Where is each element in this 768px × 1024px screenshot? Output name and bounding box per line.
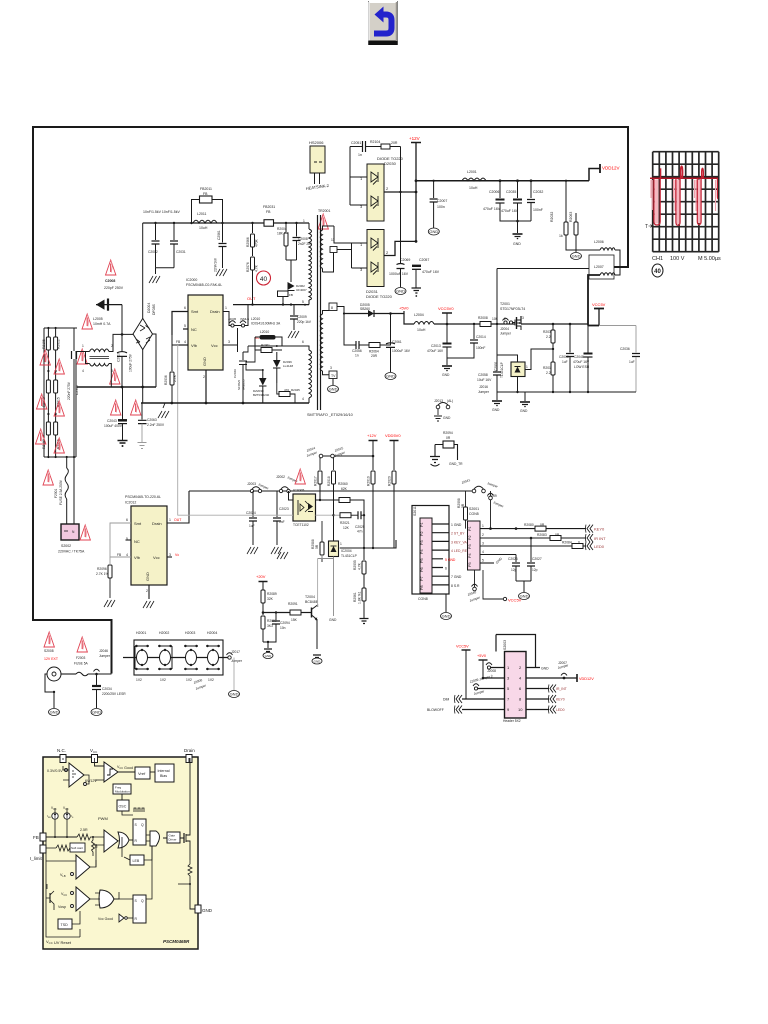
svg-text:6: 6 [184, 306, 186, 310]
svg-text:470uF 16V: 470uF 16V [573, 360, 590, 364]
R2096 [109, 557, 111, 564]
TL431 IC2001 [497, 355, 518, 362]
svg-text:220nF 275V: 220nF 275V [67, 381, 71, 400]
svg-text:VDD5V0: VDD5V0 [385, 433, 401, 438]
svg-text:(AL): (AL) [447, 399, 453, 403]
svg-text:J2004: J2004 [500, 327, 509, 331]
svg-text:Vcc: Vcc [153, 555, 160, 560]
caps C2026 C2027 [515, 527, 518, 530]
svg-text:GND: GND [314, 660, 322, 664]
svg-text:FB2011: FB2011 [200, 187, 212, 191]
svg-text:C2061: C2061 [217, 230, 221, 240]
svg-text:OUT: OUT [174, 518, 182, 522]
svg-text:P2: P2 [468, 535, 472, 540]
svg-text:H2004: H2004 [207, 631, 217, 635]
svg-text:S2003: S2003 [503, 640, 507, 650]
bottom primary bus [141, 402, 309, 404]
svg-text:20R: 20R [391, 141, 398, 145]
svg-text:H2002: H2002 [159, 631, 169, 635]
svg-text:470uF 16V: 470uF 16V [422, 270, 440, 274]
svg-text:P3: P3 [468, 544, 472, 549]
svg-text:SF0S/6: SF0S/6 [237, 380, 241, 390]
svg-text:1: 1 [82, 344, 84, 348]
svg-text:C2006: C2006 [489, 190, 499, 194]
svg-text:1: 1 [169, 518, 171, 522]
svg-text:P2: P2 [420, 531, 424, 536]
svg-text:IC0S41/100MHz 3A: IC0S41/100MHz 3A [251, 322, 281, 326]
C2023 [276, 491, 278, 517]
svg-text:PSCM0465-TO-220-6L: PSCM0465-TO-220-6L [125, 495, 161, 499]
svg-text:Modulation: Modulation [115, 790, 130, 794]
svg-text:R2019: R2019 [367, 476, 371, 486]
zener BZT03D240 [259, 378, 267, 386]
svg-text:C2058: C2058 [478, 373, 488, 377]
C2061b 1000uF [390, 342, 392, 345]
svg-text:470uF 16V: 470uF 16V [483, 207, 501, 211]
svg-text:LL4148: LL4148 [283, 364, 293, 368]
svg-text:IC2012: IC2012 [125, 501, 136, 505]
svg-text:STD17NF03LT4: STD17NF03LT4 [500, 307, 525, 311]
svg-text:C2048: C2048 [574, 355, 584, 359]
svg-text:J2041: J2041 [461, 478, 471, 485]
svg-text:C2007: C2007 [437, 199, 447, 203]
svg-text:0.3V/0.5V: 0.3V/0.5V [47, 769, 63, 773]
svg-text:FB: FB [266, 210, 271, 214]
svg-text:J2008: J2008 [487, 669, 496, 673]
svg-text:T: T [645, 224, 648, 230]
svg-text:22nF/1kV: 22nF/1kV [214, 257, 218, 272]
svg-text:2.7K: 2.7K [173, 374, 177, 382]
svg-text:Vosp: Vosp [58, 905, 66, 909]
C2009 snubber to gnd [293, 305, 295, 315]
R2090 C2094 [261, 616, 265, 629]
svg-text:220VAC / TK75A: 220VAC / TK75A [58, 550, 85, 554]
svg-text:+12V: +12V [367, 433, 377, 438]
svg-text:R: R [95, 845, 98, 849]
svg-text:J2003: J2003 [247, 482, 256, 486]
svg-text:FB: FB [203, 192, 208, 196]
svg-text:VDD12V: VDD12V [579, 677, 594, 681]
svg-text:Internal: Internal [158, 769, 170, 773]
C2058 / J2016 [496, 324, 498, 371]
svg-text:470uF 16V: 470uF 16V [501, 209, 519, 213]
svg-text:TV: TV [331, 374, 336, 378]
svg-text:P6: P6 [420, 567, 424, 572]
svg-text:0R: 0R [446, 436, 451, 440]
C2061 22nF [222, 223, 224, 243]
svg-text:CON8: CON8 [418, 597, 428, 601]
svg-text:BLOWOFF: BLOWOFF [427, 708, 444, 712]
fuse F2001 [66, 457, 68, 468]
svg-text:Jumper: Jumper [99, 654, 111, 658]
svg-text:LED0: LED0 [556, 708, 565, 712]
svg-text:4.7K: 4.7K [358, 562, 362, 570]
svg-text:Drain: Drain [210, 309, 220, 314]
svg-text:M 5.00µs: M 5.00µs [698, 256, 721, 262]
svg-text:3 KEY_VAL: 3 KEY_VAL [451, 540, 469, 544]
resistor R2104 [381, 144, 390, 149]
svg-text:J2009 Jumper 2: J2009 Jumper 2 [469, 674, 493, 684]
svg-text:2: 2 [386, 186, 389, 191]
capacitor C2051 [363, 141, 366, 152]
svg-text:IR_INT: IR_INT [556, 687, 567, 691]
svg-text:C2043: C2043 [107, 419, 117, 423]
svg-text:C2023: C2023 [279, 507, 289, 511]
svg-text:C2016: C2016 [559, 355, 569, 359]
drain wire [233, 304, 309, 306]
svg-text:2.5R: 2.5R [80, 828, 88, 832]
svg-text:Jumper: Jumper [500, 332, 512, 336]
svg-text:C2049: C2049 [233, 369, 237, 378]
svg-text:1000uF 16V: 1000uF 16V [389, 272, 409, 276]
svg-text:R2008: R2008 [478, 316, 488, 320]
3 small pulse shapes above latch [134, 808, 144, 812]
svg-text:100uF 400V: 100uF 400V [104, 424, 123, 428]
svg-text:TCET1102: TCET1102 [293, 523, 309, 527]
svg-text:C2069: C2069 [400, 258, 410, 262]
svg-text:3: 3 [522, 316, 524, 320]
svg-text:R2061: R2061 [353, 592, 357, 602]
svg-text:VCC5V0: VCC5V0 [438, 306, 454, 311]
svg-text:R2017: R2017 [314, 476, 318, 486]
connector S2011 CON8 [412, 506, 449, 595]
junction dots on rail [499, 179, 502, 182]
fuse F2003 [77, 637, 87, 652]
svg-text:1.8K %1: 1.8K %1 [358, 591, 362, 604]
svg-text:CH1: CH1 [652, 256, 663, 262]
svg-text:Drain: Drain [184, 748, 195, 753]
svg-text:2200/25V LESR: 2200/25V LESR [102, 692, 126, 696]
svg-text:1V2: 1V2 [208, 678, 214, 682]
svg-text:J2045: J2045 [228, 317, 237, 321]
svg-text:8: 8 [331, 306, 333, 310]
svg-text:Jumper: Jumper [469, 595, 482, 603]
J2017 jumper to gnd [228, 656, 231, 659]
C2024 [252, 491, 254, 517]
svg-text:P8: P8 [420, 585, 424, 590]
red circled 40 [257, 271, 271, 285]
svg-text:F2001: F2001 [54, 488, 58, 498]
svg-text:TSD: TSD [61, 923, 69, 927]
C2017 cap [121, 333, 124, 336]
svg-text:5: 5 [184, 324, 186, 328]
svg-text:8 S.R: 8 S.R [451, 584, 460, 588]
svg-text:Vref: Vref [138, 771, 146, 776]
svg-text:IC2004: IC2004 [341, 549, 352, 553]
svg-text:HS2006: HS2006 [309, 140, 324, 145]
pin stubs [432, 524, 449, 585]
svg-text:R2076: R2076 [246, 262, 250, 272]
wire right border down to L2007 [614, 126, 628, 267]
svg-text:N.C.: N.C. [57, 748, 66, 753]
secondary winding lower (7,3) [320, 314, 322, 371]
svg-text:IR INT: IR INT [594, 536, 606, 541]
svg-text:Drain: Drain [152, 521, 162, 526]
svg-text:10uH: 10uH [199, 226, 208, 230]
svg-text:R2084: R2084 [562, 541, 572, 545]
svg-text:R2064: R2064 [369, 350, 379, 354]
svg-text:KEY0: KEY0 [556, 698, 565, 702]
scope grid [653, 152, 719, 252]
svg-text:1: 1 [340, 542, 342, 546]
chevron terminals + labels [586, 525, 594, 533]
PWM comparator [104, 830, 118, 852]
svg-text:L2011: L2011 [197, 212, 207, 216]
svg-text:Smt: Smt [134, 521, 142, 526]
scope waveform trace [650, 166, 718, 225]
svg-text:NC: NC [134, 539, 140, 544]
svg-text:10: 10 [518, 707, 523, 712]
svg-text:L2004: L2004 [414, 313, 424, 317]
svg-text:C2008: C2008 [105, 279, 115, 283]
diode UF4007 w/ FB [288, 282, 295, 290]
svg-text:2.7K 1%: 2.7K 1% [96, 572, 109, 576]
svg-text:C2034: C2034 [102, 687, 112, 691]
svg-text:40: 40 [260, 276, 268, 283]
svg-text:L2006: L2006 [594, 240, 604, 244]
svg-text:VCC Good: VCC Good [117, 765, 133, 770]
svg-text:VCC5V: VCC5V [508, 598, 522, 603]
svg-text:C2014: C2014 [476, 335, 486, 339]
svg-text:R2004: R2004 [277, 227, 287, 231]
svg-text:Vc: Vc [175, 553, 179, 557]
svg-text:C2002: C2002 [148, 250, 158, 254]
chevrons right [549, 685, 557, 693]
middle comparator [76, 855, 90, 879]
left stubs [462, 668, 505, 710]
svg-text:P5: P5 [420, 558, 424, 563]
svg-text:10uH: 10uH [417, 328, 426, 332]
svg-text:S2011: S2011 [413, 506, 417, 516]
svg-text:1n: 1n [355, 354, 359, 358]
svg-text:GND_TR: GND_TR [449, 462, 463, 466]
svg-text:4: 4 [126, 553, 128, 557]
svg-text:IC2000: IC2000 [186, 278, 197, 282]
svg-text:5 GND: 5 GND [445, 558, 456, 562]
svg-text:GND: GND [202, 908, 213, 913]
svg-text:2: 2 [203, 375, 205, 379]
svg-text:C2035: C2035 [506, 190, 516, 194]
MOSFET right [183, 833, 185, 843]
svg-text:C2032: C2032 [533, 190, 543, 194]
svg-text:1nF: 1nF [279, 520, 285, 524]
four tube symbols [135, 646, 220, 669]
svg-text:220pF 250V: 220pF 250V [104, 286, 124, 290]
svg-text:Header 5X2: Header 5X2 [503, 719, 521, 723]
svg-text:P7: P7 [420, 576, 424, 581]
svg-text:VCC5V: VCC5V [456, 645, 469, 649]
svg-text:FB: FB [117, 553, 122, 557]
main top DC wire [143, 222, 309, 224]
svg-text:9R2035: 9R2035 [242, 379, 246, 390]
svg-text:FB2031: FB2031 [263, 205, 275, 209]
svg-text:1: 1 [482, 524, 484, 528]
svg-text:P1: P1 [420, 522, 424, 527]
secondary 5V diode [344, 313, 368, 315]
svg-text:GND: GND [265, 654, 273, 658]
svg-text:12p: 12p [532, 568, 538, 572]
AC inlet S2002 [61, 524, 79, 540]
svg-text:R2045: R2045 [291, 388, 300, 392]
svg-text:CON5: CON5 [469, 512, 479, 516]
svg-text:R2104: R2104 [370, 140, 380, 144]
svg-text:FB: FB [33, 835, 39, 840]
svg-text:GND: GND [541, 667, 549, 671]
svg-text:VCC: VCC [90, 748, 98, 754]
svg-text:GND: GND [513, 242, 521, 246]
svg-text:GND: GND [443, 416, 451, 420]
svg-text:R2091: R2091 [288, 602, 298, 606]
right pin GND [195, 905, 201, 913]
primary winding [308, 223, 310, 229]
svg-text:20R: 20R [371, 354, 378, 358]
svg-text:L2001: L2001 [467, 170, 477, 174]
svg-text:5: 5 [482, 559, 484, 563]
minus bus y387 [77, 386, 156, 388]
svg-text:R2005: R2005 [353, 560, 357, 570]
svg-text:R2089: R2089 [267, 592, 277, 596]
svg-text:I_limit: I_limit [30, 856, 43, 861]
C2034 [96, 674, 98, 685]
secondary winding upper (11,12) [320, 230, 322, 268]
svg-text:1: 1 [526, 365, 528, 369]
svg-text:6: 6 [445, 567, 447, 571]
svg-text:GND: GND [520, 409, 528, 413]
svg-text:SMTTRAFO _ET029/16/10: SMTTRAFO _ET029/16/10 [307, 413, 353, 417]
svg-text:Jumper: Jumper [231, 659, 243, 663]
svg-text:P4: P4 [420, 549, 424, 554]
svg-text:1uF: 1uF [562, 360, 568, 364]
svg-text:GND: GND [145, 572, 150, 581]
svg-text:3: 3 [482, 542, 484, 546]
R2031 2.2k + R2013 2.2K [552, 324, 554, 330]
svg-text:Vcc Good: Vcc Good [98, 917, 113, 921]
svg-text:C2024: C2024 [246, 511, 256, 515]
bottom rail [497, 391, 636, 393]
svg-text:R2018: R2018 [327, 476, 331, 486]
12V EXT jack [44, 632, 54, 647]
svg-text:TR2001: TR2001 [318, 209, 331, 213]
svg-text:2: 2 [386, 250, 389, 255]
diode block D2031 [367, 230, 384, 287]
svg-text:40: 40 [654, 269, 661, 275]
C2013 [446, 324, 448, 343]
svg-text:470: 470 [284, 388, 289, 392]
main 12V wire to the right [416, 180, 589, 182]
FB gray line [177, 345, 179, 516]
svg-text:Jumper: Jumper [493, 500, 505, 509]
svg-text:P1: P1 [468, 526, 472, 531]
blue arrow glyph [374, 15, 392, 34]
svg-text:DIM: DIM [443, 698, 449, 702]
svg-text:KEY0: KEY0 [594, 527, 605, 532]
svg-text:Q: Q [141, 823, 144, 827]
svg-text:S2008: S2008 [44, 649, 54, 653]
R2066 R2076 chain [252, 223, 254, 233]
svg-text:DF08S: DF08S [152, 303, 156, 315]
svg-text:R2083: R2083 [537, 533, 547, 537]
svg-text:C2057: C2057 [419, 258, 429, 262]
svg-text:1V2: 1V2 [160, 678, 166, 682]
latch box 2 [133, 895, 146, 923]
svg-text:1V2: 1V2 [186, 678, 192, 682]
svg-text:F2003: F2003 [76, 656, 86, 660]
svg-text:R2105: R2105 [42, 339, 46, 349]
svg-text:OSC: OSC [119, 805, 127, 809]
svg-text:C2094: C2094 [280, 621, 290, 625]
warning triangles EMI [40, 350, 50, 365]
wire top border [33, 126, 628, 128]
soft start [70, 843, 85, 852]
IC pins [172, 312, 188, 336]
svg-text:1n: 1n [358, 153, 362, 157]
Internal Bias box [155, 764, 174, 782]
VDD12V right [563, 677, 566, 680]
svg-text:GND: GND [492, 408, 500, 412]
svg-text:C2051: C2051 [351, 141, 361, 145]
svg-text:FB: FB [289, 293, 293, 297]
svg-text:3: 3 [228, 340, 230, 344]
svg-text:+5V0: +5V0 [399, 306, 409, 311]
circled 40 under scope [652, 264, 663, 277]
snubber drop x=401 [400, 147, 402, 242]
C2016 C2048 C2036 [569, 324, 571, 353]
svg-text:Vfb: Vfb [191, 343, 198, 348]
svg-text:C2031: C2031 [176, 250, 186, 254]
svg-text:470uF 16V: 470uF 16V [427, 349, 444, 353]
Vref box [135, 767, 150, 779]
svg-text:S2002: S2002 [61, 544, 71, 548]
svg-text:FUSE 2.5A 250V: FUSE 2.5A 250V [59, 479, 63, 505]
svg-text:L2007: L2007 [594, 265, 604, 269]
right stubs [526, 668, 577, 710]
FB bus to right [189, 490, 474, 492]
surge arrester / C2008 arrow device [106, 260, 116, 275]
BJT left bottom [49, 893, 51, 903]
R2036 on FB [172, 344, 179, 346]
VDD12V terminal [589, 169, 600, 181]
svg-text:BC848B: BC848B [305, 600, 319, 604]
svg-text:2 ST_BY: 2 ST_BY [451, 532, 465, 536]
svg-text:R2096: R2096 [97, 567, 107, 571]
svg-text:2.2nF 250V: 2.2nF 250V [147, 423, 165, 427]
svg-text:3: 3 [169, 553, 171, 557]
svg-text:4: 4 [302, 397, 304, 401]
diode symbols inside D2030 [371, 172, 378, 185]
svg-text:FUSE 5A: FUSE 5A [74, 662, 89, 666]
svg-text:7 GND: 7 GND [451, 575, 462, 579]
svg-text:100nF: 100nF [476, 346, 485, 350]
latch box 1 [133, 819, 146, 845]
svg-text:Soft start: Soft start [71, 846, 83, 850]
svg-text:C2013: C2013 [431, 344, 441, 348]
svg-text:R2021: R2021 [340, 521, 350, 525]
svg-text:FSCM0465-C0-FAK-6L: FSCM0465-C0-FAK-6L [186, 283, 222, 287]
svg-text:Driver: Driver [169, 838, 177, 842]
R2045 [279, 392, 290, 397]
pins [110, 523, 131, 557]
svg-text:P3: P3 [420, 540, 424, 545]
svg-text:220p 1kV: 220p 1kV [297, 320, 312, 324]
svg-text:2: 2 [482, 533, 484, 537]
svg-text:L2005: L2005 [93, 317, 103, 321]
svg-text:T2004: T2004 [305, 595, 315, 599]
svg-text:Jumper: Jumper [195, 683, 208, 691]
svg-text:C2063: C2063 [147, 418, 157, 422]
svg-text:PWM: PWM [98, 816, 108, 821]
svg-text:BZT03D240: BZT03D240 [253, 393, 270, 397]
svg-text:GND: GND [442, 373, 450, 377]
